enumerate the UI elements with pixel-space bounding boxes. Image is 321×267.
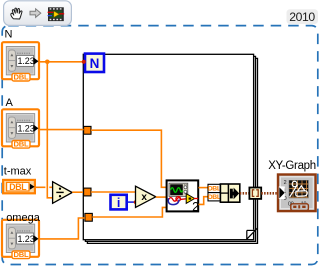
tunnel divide (left border) xyxy=(84,188,91,196)
wire divide out to tunnel xyxy=(72,191,84,193)
svg-text:DBL: DBL xyxy=(9,182,27,192)
svg-text:A: A xyxy=(6,97,14,109)
for loop echo frame 2 xyxy=(87,58,257,243)
coercion dot at N terminal xyxy=(82,60,86,64)
numeric control omega xyxy=(2,220,39,259)
wire t-max to divide (with crossing gap) xyxy=(35,186,45,188)
for loop folded corner xyxy=(246,228,258,240)
numeric control N xyxy=(2,42,39,81)
snippet header toolbar xyxy=(4,1,72,26)
svg-text:DBL: DBL xyxy=(208,186,221,193)
divide function xyxy=(53,182,73,204)
svg-text:N: N xyxy=(90,56,100,71)
wire A tunnel to VI icon xyxy=(91,130,166,187)
svg-text:2: 2 xyxy=(284,180,287,186)
formula/sine express VI icon xyxy=(167,180,199,211)
wire VI upper out to bundle xyxy=(199,187,209,189)
cluster wire tunnel to XY-Graph (dotted) xyxy=(261,192,278,195)
wire N control to N terminal xyxy=(39,61,84,63)
svg-text:DBL: DBL xyxy=(208,194,221,201)
svg-text:x: x xyxy=(141,192,147,203)
wire omega tunnel to VI icon xyxy=(92,207,166,217)
tunnel omega (left border) xyxy=(85,213,92,221)
junction dot xyxy=(45,60,50,65)
cluster wire bundle to tunnel (dotted) xyxy=(240,192,250,195)
svg-text:i: i xyxy=(117,196,120,210)
wire tunnel to multiply xyxy=(91,191,136,193)
wire i to multiply xyxy=(127,201,135,203)
wire VI lower out to bundle xyxy=(199,197,209,205)
svg-text:XY-Graph: XY-Graph xyxy=(268,160,316,172)
bundle node xyxy=(220,184,239,202)
2010 version tag xyxy=(287,9,319,24)
svg-text:omega: omega xyxy=(6,212,41,224)
wire N branch down to divide xyxy=(47,62,53,198)
svg-text:N: N xyxy=(5,29,13,41)
for loop echo frame 1 xyxy=(85,56,255,241)
for loop border (main rect) xyxy=(83,54,253,239)
arrow icon xyxy=(30,9,41,18)
VI film-strip icon xyxy=(48,7,65,21)
i iteration terminal xyxy=(111,195,127,210)
wire omega control to tunnel xyxy=(39,218,85,239)
hand tool icon xyxy=(11,8,22,19)
svg-text:t-max: t-max xyxy=(4,166,32,178)
indexing output tunnel xyxy=(249,188,261,199)
XY-Graph terminal xyxy=(278,175,316,212)
svg-text:2010: 2010 xyxy=(289,10,315,24)
wire multiply to VI icon xyxy=(156,196,167,198)
N count terminal xyxy=(85,54,104,72)
multiply function xyxy=(136,186,156,207)
wire A control to tunnel xyxy=(39,129,84,131)
bundle input type cells DBL/DBL xyxy=(208,184,221,201)
t-max terminal xyxy=(3,180,35,193)
tunnel A (left border) xyxy=(84,126,91,134)
svg-text:2: 2 xyxy=(192,200,199,214)
numeric control A xyxy=(2,109,39,148)
coercion dot at multiply xyxy=(134,200,138,204)
